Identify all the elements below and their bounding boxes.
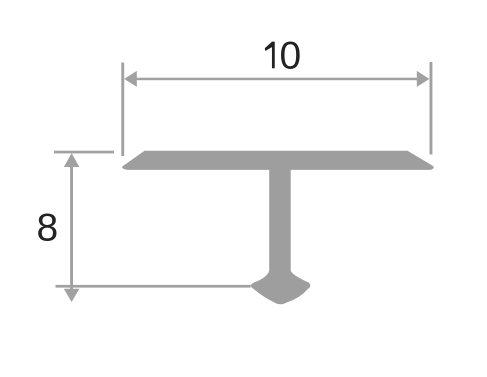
extension line bottom (for 8) [56,285,251,288]
dimension line 10 [135,78,418,81]
dimension extension line right (for 10) [430,62,433,155]
up arrow of 8 [64,153,80,167]
left arrow of 10 [124,71,137,87]
svg-text:0: 0 [279,34,301,77]
dimension line 8 [70,165,73,289]
T-profile stem [269,169,291,281]
T-profile bottom foot (diamond) [251,271,311,304]
svg-text:8: 8 [37,207,59,250]
down arrow of 8 [64,289,80,302]
dimension extension line left (for 10) [121,63,124,157]
right arrow of 10 [417,71,430,87]
T-profile flange [122,151,434,170]
label 10 : digit 1 drawn as path (no-foot style) [265,42,275,69]
extension line top (for 8) [54,151,114,154]
